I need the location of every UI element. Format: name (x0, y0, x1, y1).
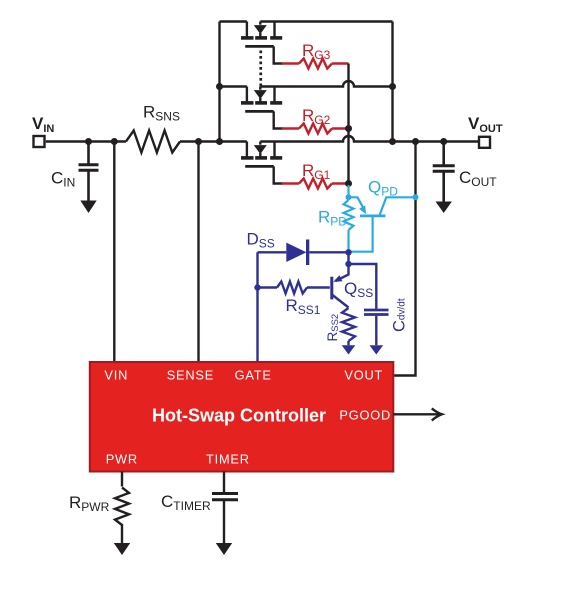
wire PGOOD output (393, 413, 441, 415)
capacitor CTIMER (212, 494, 238, 500)
svg-text:TIMER: TIMER (206, 452, 250, 467)
diode DSS (258, 251, 287, 253)
capacitor COUT (433, 142, 455, 202)
resistor RG1 (282, 179, 349, 189)
resistor RG3 (282, 59, 349, 69)
wire VOUT pin (393, 142, 415, 376)
svg-text:SENSE: SENSE (167, 368, 214, 383)
ground (370, 345, 384, 354)
svg-text:PWR: PWR (106, 452, 138, 467)
dotted ellipsis between FETs (259, 51, 262, 54)
svg-text:PGOOD: PGOOD (339, 408, 391, 423)
MOSFET Q1 (241, 142, 283, 184)
wire main VOUT rail with hop (260, 136, 479, 142)
node VIN terminal (34, 136, 45, 147)
wire TIMER pin (223, 472, 225, 494)
capacitor Cdv/dt (349, 264, 389, 345)
wire gate to QPD node (347, 185, 349, 197)
svg-text:Hot-Swap Controller: Hot-Swap Controller (152, 406, 326, 426)
ground (436, 202, 452, 214)
wire PWR pin (121, 472, 123, 487)
resistor RPD (344, 200, 354, 230)
resistor RSS1 (258, 286, 278, 288)
svg-text:GATE: GATE (235, 368, 272, 383)
transistor QPD (349, 197, 416, 251)
ground (216, 543, 232, 555)
transistor QSS (332, 264, 349, 308)
resistor RSNS (126, 131, 180, 153)
wire right source bus (391, 22, 393, 142)
wire left drain bus (218, 22, 220, 142)
ground (80, 201, 96, 214)
wire M3 top rail (220, 20, 393, 22)
resistor RSS2 (342, 308, 355, 341)
junction dots (85, 138, 92, 145)
wire SENSE pin (197, 142, 199, 363)
capacitor CIN (79, 142, 99, 201)
resistor RPWR (115, 488, 129, 526)
node wire gate-net verticals (347, 252, 349, 264)
svg-text:VOUT: VOUT (344, 368, 383, 383)
MOSFET Q3 (241, 22, 283, 64)
MOSFET Q2 (241, 87, 283, 129)
wire VIN pin (113, 142, 115, 363)
resistor RG2 (282, 124, 349, 134)
wire gate bus (347, 64, 349, 184)
svg-text:VIN: VIN (104, 368, 128, 383)
wire main VIN rail (46, 140, 126, 142)
wire M2 rail with hop (220, 81, 393, 87)
ground (114, 543, 130, 555)
controller U1 Hot-Swap Controller box (90, 362, 394, 472)
node VOUT terminal (479, 137, 490, 148)
blue junction dots (345, 249, 351, 255)
ground (342, 345, 356, 354)
wire GATE pin (256, 252, 258, 362)
